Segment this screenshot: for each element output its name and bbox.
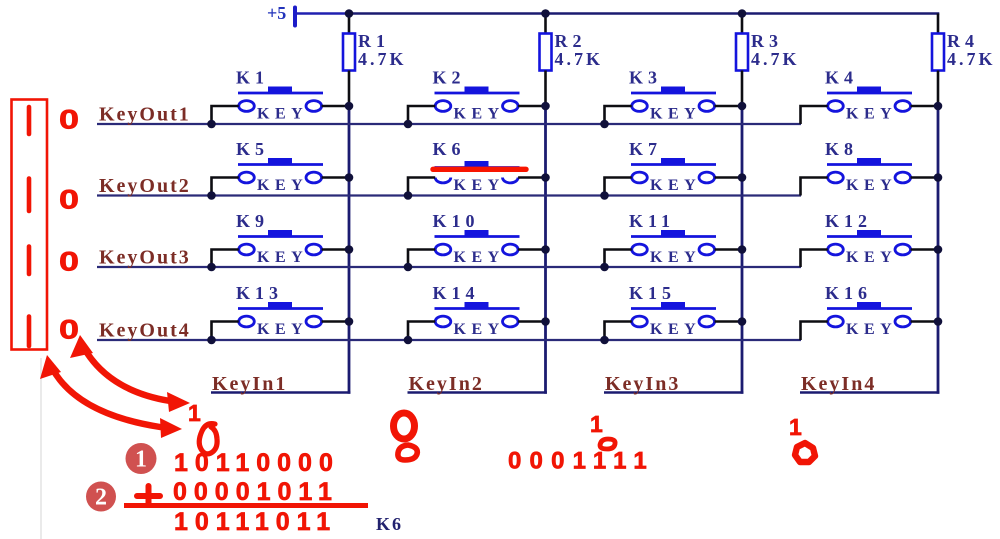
svg-text:K4: K4 (825, 68, 858, 88)
wire K13 to column KeyIn1 (322, 320, 349, 323)
annotation: scribble loop at KeyIn2 (398, 445, 417, 460)
key K2 right contact (503, 101, 519, 112)
annotation: sum underline (124, 503, 368, 508)
svg-text:KEY: KEY (650, 106, 701, 123)
annotation: scribble loop at KeyIn3 (600, 439, 615, 449)
junction K6 / KeyIn2 column (541, 173, 550, 182)
junction K5 / KeyIn1 column (345, 173, 354, 182)
junction K6 tap / KeyOut2 (404, 191, 413, 200)
key K5 cap (268, 158, 292, 165)
wire KeyIn3 stub (604, 391, 743, 394)
wire K5 to column KeyIn1 (322, 176, 349, 179)
junction K1 tap / KeyOut1 (207, 120, 216, 129)
svg-text:KEY: KEY (846, 249, 897, 266)
key switch K12 (801, 211, 943, 267)
key K15 left contact (632, 316, 648, 327)
key K16 left contact (828, 316, 844, 327)
svg-text:KEY: KEY (257, 321, 308, 338)
svg-text:K14: K14 (433, 283, 480, 303)
wire K3 tap from KeyOut1 (605, 106, 632, 124)
resistor R4 (932, 14, 944, 107)
junction K15 / KeyIn3 column (738, 317, 747, 326)
key K2 left contact (435, 101, 451, 112)
svg-text:KEY: KEY (454, 177, 505, 194)
svg-text:K7: K7 (629, 139, 662, 159)
key K5 actuator bar (238, 163, 323, 166)
key K5 left contact (239, 172, 255, 183)
key K13 left contact (239, 316, 255, 327)
key switch K9 (207, 211, 353, 271)
junction K3 tap / KeyOut1 (600, 120, 609, 129)
svg-text:4.7K: 4.7K (555, 49, 604, 69)
key switch K10 (404, 211, 550, 271)
wire column KeyIn2 vertical (544, 106, 547, 394)
svg-text:KEY: KEY (846, 321, 897, 338)
svg-text:00001011: 00001011 (173, 478, 339, 506)
wire K1 tap from KeyOut1 (212, 106, 239, 124)
wire faint slide edge (40, 358, 42, 539)
wire K14 tap from KeyOut4 (408, 322, 435, 341)
junction rail / column 1 (345, 9, 354, 18)
key K7 cap (661, 158, 685, 165)
svg-text:KEY: KEY (454, 249, 505, 266)
wire power rail (+5 net) (348, 12, 939, 15)
annotation: plus sign (137, 486, 160, 505)
key K8 actuator bar (827, 163, 912, 166)
key K14 actuator bar (435, 307, 520, 310)
junction K5 tap / KeyOut2 (207, 191, 216, 200)
key K3 right contact (699, 101, 715, 112)
key K3 cap (661, 87, 685, 94)
wire K9 tap from KeyOut3 (212, 250, 239, 268)
wire K10 tap from KeyOut3 (408, 250, 435, 268)
key K2 actuator bar (435, 92, 520, 95)
wire K10 to column KeyIn2 (518, 248, 545, 251)
key K16 cap (857, 302, 881, 309)
annotation: scribble o at KeyIn4 (795, 443, 815, 462)
key switch K14 (404, 283, 550, 344)
key K7 right contact (699, 172, 715, 183)
key K1 right contact (306, 101, 322, 112)
key switch K5 (207, 139, 353, 200)
wire K12 tap from KeyOut3 (801, 250, 828, 268)
junction rail / column 3 (738, 9, 747, 18)
junction K16 / KeyIn4 column (934, 317, 943, 326)
wire row KeyOut4 (97, 339, 801, 341)
svg-text:K16: K16 (825, 283, 872, 303)
wire K5 tap from KeyOut2 (212, 178, 239, 196)
wire K7 tap from KeyOut2 (605, 178, 632, 196)
svg-text:1: 1 (135, 447, 147, 473)
key K4 cap (857, 87, 881, 94)
junction K11 / KeyIn3 column (738, 245, 747, 254)
resistor R3 (736, 14, 748, 107)
key K15 cap (661, 302, 685, 309)
svg-text:KEY: KEY (454, 321, 505, 338)
svg-text:K3: K3 (629, 68, 662, 88)
key K13 cap (268, 302, 292, 309)
junction K10 tap / KeyOut3 (404, 263, 413, 272)
junction K10 / KeyIn2 column (541, 245, 550, 254)
annotation: dash bit row4 (27, 317, 32, 347)
wire K2 tap from KeyOut1 (408, 106, 435, 124)
key switch K11 (600, 211, 746, 271)
svg-text:KeyOut1: KeyOut1 (99, 104, 191, 126)
junction K13 tap / KeyOut4 (207, 336, 216, 345)
svg-text:KeyIn4: KeyIn4 (801, 373, 876, 395)
key K15 right contact (699, 316, 715, 327)
junction K9 / KeyIn1 column (345, 245, 354, 254)
key K11 left contact (632, 244, 648, 255)
key K1 left contact (239, 101, 255, 112)
svg-text:0: 0 (59, 315, 79, 345)
annotation: curved arrow A (0 to result bit 1) (84, 348, 170, 401)
svg-text:R2: R2 (555, 31, 587, 51)
key K6 left contact (half) (435, 178, 451, 183)
key K14 left contact (435, 316, 451, 327)
+5 power supply terminal (293, 8, 297, 26)
junction K4 / KeyIn4 column (934, 102, 943, 111)
svg-text:K13: K13 (236, 283, 283, 303)
key K11 actuator bar (631, 235, 716, 238)
wire K15 tap from KeyOut4 (605, 322, 632, 341)
key K7 actuator bar (631, 163, 716, 166)
key K14 cap (465, 302, 489, 309)
wire KeyIn2 stub (408, 391, 547, 394)
annotation: dash bit row1 (27, 107, 32, 134)
wire K4 tap from KeyOut1 (801, 106, 828, 124)
key K14 right contact (503, 316, 519, 327)
junction K13 / KeyIn1 column (345, 317, 354, 326)
svg-text:KEY: KEY (257, 106, 308, 123)
svg-text:K6: K6 (433, 139, 466, 159)
wire row KeyOut1 (97, 123, 801, 125)
svg-text:K11: K11 (629, 211, 675, 231)
key K8 cap (857, 158, 881, 165)
svg-text:KeyOut2: KeyOut2 (99, 175, 191, 197)
wire K8 tap from KeyOut2 (801, 178, 828, 196)
key switch K6 (404, 139, 550, 200)
key switch K3 (600, 68, 746, 129)
svg-text:K12: K12 (825, 211, 872, 231)
annotation: red mark over K6 actuator (433, 167, 526, 172)
wire column KeyIn1 vertical (348, 106, 351, 394)
svg-text:4.7K: 4.7K (358, 49, 407, 69)
junction K9 tap / KeyOut3 (207, 263, 216, 272)
svg-text:KeyIn1: KeyIn1 (212, 373, 287, 395)
key K9 actuator bar (238, 235, 323, 238)
wire K15 to column KeyIn3 (715, 320, 742, 323)
junction rail / column 2 (541, 9, 550, 18)
wire K16 to column KeyIn4 (911, 320, 938, 323)
svg-text:R4: R4 (947, 31, 979, 51)
wire row KeyOut2 (97, 194, 801, 196)
key K12 cap (857, 230, 881, 237)
wire K2 to column KeyIn2 (518, 105, 545, 108)
key K4 right contact (895, 101, 911, 112)
key switch K16 (801, 283, 943, 340)
key K3 actuator bar (631, 92, 716, 95)
svg-text:10111011: 10111011 (174, 508, 337, 536)
wire K1 to column KeyIn1 (322, 105, 349, 108)
svg-text:K10: K10 (433, 211, 480, 231)
key K9 left contact (239, 244, 255, 255)
resistor R1 (343, 14, 355, 107)
annotation: scribble big 0 at KeyIn2 (394, 413, 415, 439)
annotation: red dashed box (KeyOut write pattern) (12, 100, 48, 350)
wire K3 to column KeyIn3 (715, 105, 742, 108)
svg-text:KEY: KEY (257, 177, 308, 194)
svg-text:4.7K: 4.7K (947, 49, 996, 69)
wire K9 to column KeyIn1 (322, 248, 349, 251)
svg-text:K6: K6 (376, 514, 403, 534)
svg-text:KEY: KEY (650, 321, 701, 338)
key K1 cap (268, 87, 292, 94)
svg-text:KeyOut3: KeyOut3 (99, 247, 191, 269)
svg-text:1: 1 (188, 400, 201, 426)
junction K14 / KeyIn2 column (541, 317, 550, 326)
wire column KeyIn4 vertical (937, 106, 940, 394)
key K13 actuator bar (238, 307, 323, 310)
svg-text:KeyIn3: KeyIn3 (605, 373, 680, 395)
svg-text:K5: K5 (236, 139, 269, 159)
wire +5 to rail (297, 12, 349, 15)
svg-text:1: 1 (789, 414, 802, 440)
key switch K15 (600, 283, 746, 344)
svg-text:KEY: KEY (846, 177, 897, 194)
svg-text:K1: K1 (236, 68, 269, 88)
svg-text:R3: R3 (751, 31, 783, 51)
annotation: scribble 0 at KeyIn1 (199, 424, 217, 454)
svg-text:K9: K9 (236, 211, 269, 231)
svg-text:KEY: KEY (846, 106, 897, 123)
wire K11 tap from KeyOut3 (605, 250, 632, 268)
svg-text:10110000: 10110000 (174, 449, 340, 477)
svg-text:0: 0 (59, 185, 79, 215)
svg-text:K15: K15 (629, 283, 676, 303)
svg-text:0001111: 0001111 (508, 448, 655, 475)
annotation: step badge 1 (126, 443, 157, 474)
annotation: step badge 2 (86, 482, 116, 512)
key K9 cap (268, 230, 292, 237)
svg-text:+5: +5 (267, 3, 286, 23)
key K4 actuator bar (827, 92, 912, 95)
junction K7 / KeyIn3 column (738, 173, 747, 182)
key K6 right contact (half) (502, 178, 518, 183)
key switch K4 (801, 68, 943, 125)
key K16 actuator bar (827, 307, 912, 310)
junction K2 tap / KeyOut1 (404, 120, 413, 129)
key K15 actuator bar (631, 307, 716, 310)
svg-text:4.7K: 4.7K (751, 49, 800, 69)
junction K3 / KeyIn3 column (738, 102, 747, 111)
svg-text:2: 2 (95, 485, 107, 511)
svg-text:KeyOut4: KeyOut4 (99, 320, 191, 342)
key K12 left contact (828, 244, 844, 255)
junction K11 tap / KeyOut3 (600, 263, 609, 272)
junction K7 tap / KeyOut2 (600, 191, 609, 200)
svg-text:KEY: KEY (650, 177, 701, 194)
key switch K2 (404, 68, 550, 129)
key K10 right contact (503, 244, 519, 255)
junction K14 tap / KeyOut4 (404, 336, 413, 345)
key K1 actuator bar (238, 92, 323, 95)
junction K15 tap / KeyOut4 (600, 336, 609, 345)
junction K1 / KeyIn1 column (345, 102, 354, 111)
wire K6 to column KeyIn2 (518, 176, 545, 179)
wire K7 to column KeyIn3 (715, 176, 742, 179)
key K8 right contact (895, 172, 911, 183)
junction K12 / KeyIn4 column (934, 245, 943, 254)
annotation: curved arrow B (box to scribble 0) (52, 368, 160, 427)
key switch K13 (207, 283, 353, 344)
key K12 actuator bar (827, 235, 912, 238)
wire K12 to column KeyIn4 (911, 248, 938, 251)
annotation: dash bit row2 (27, 179, 32, 212)
key K6 actuator bar (under red mark) (435, 166, 520, 169)
wire column KeyIn3 vertical (741, 106, 744, 394)
wire row KeyOut3 (97, 266, 801, 268)
key K11 right contact (699, 244, 715, 255)
svg-text:KEY: KEY (257, 249, 308, 266)
annotation: dash bit row3 (27, 247, 32, 275)
wire K6 tap from KeyOut2 (408, 178, 435, 196)
key K2 cap (465, 87, 489, 94)
key switch K8 (801, 139, 943, 196)
svg-text:KEY: KEY (454, 106, 505, 123)
key K4 left contact (828, 101, 844, 112)
key K7 left contact (632, 172, 648, 183)
key switch K1 (207, 68, 353, 129)
key K12 right contact (895, 244, 911, 255)
junction K8 / KeyIn4 column (934, 173, 943, 182)
key K10 left contact (435, 244, 451, 255)
wire KeyIn1 stub (211, 391, 350, 394)
svg-text:K2: K2 (433, 68, 466, 88)
key K16 right contact (895, 316, 911, 327)
key K11 cap (661, 230, 685, 237)
key K6 cap (465, 161, 489, 168)
wire K14 to column KeyIn2 (518, 320, 545, 323)
svg-text:K8: K8 (825, 139, 858, 159)
svg-text:1: 1 (590, 411, 603, 437)
svg-text:KEY: KEY (650, 249, 701, 266)
key K10 cap (465, 230, 489, 237)
resistor R2 (540, 14, 552, 107)
key switch K7 (600, 139, 746, 200)
svg-text:KeyIn2: KeyIn2 (409, 373, 484, 395)
wire K13 tap from KeyOut4 (212, 322, 239, 341)
svg-text:0: 0 (59, 247, 79, 277)
wire K8 to column KeyIn4 (911, 176, 938, 179)
wire K16 tap from KeyOut4 (801, 322, 828, 341)
svg-text:R1: R1 (358, 31, 390, 51)
key K8 left contact (828, 172, 844, 183)
wire KeyIn4 stub (800, 391, 939, 394)
key K3 left contact (632, 101, 648, 112)
key K5 right contact (306, 172, 322, 183)
junction K2 / KeyIn2 column (541, 102, 550, 111)
svg-text:0: 0 (59, 105, 79, 135)
key K10 actuator bar (435, 235, 520, 238)
key K9 right contact (306, 244, 322, 255)
key K13 right contact (306, 316, 322, 327)
wire K11 to column KeyIn3 (715, 248, 742, 251)
wire K4 to column KeyIn4 (911, 105, 938, 108)
